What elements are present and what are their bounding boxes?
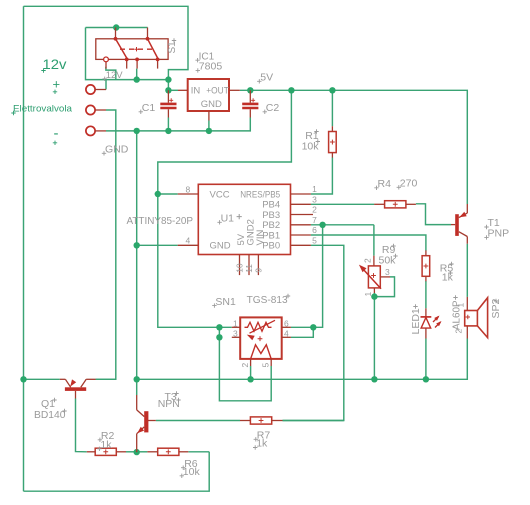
svg-text:GND: GND bbox=[105, 144, 129, 156]
pin numbers U1 bbox=[186, 184, 318, 273]
transistor T1 PNP bbox=[451, 204, 467, 244]
gas sensor SN1 TGS-813 bbox=[232, 317, 291, 366]
svg-text:7: 7 bbox=[312, 215, 317, 225]
svg-text:+OUT: +OUT bbox=[206, 85, 229, 96]
wire IC1 GND lead to GND bus bbox=[208, 121, 210, 131]
wire GND drop x=136.7 bbox=[136, 131, 138, 395]
node GND pin4 bbox=[134, 242, 140, 248]
node sensor pin3 bbox=[216, 334, 222, 340]
wire T3 emitter node to R2/R6 bbox=[126, 451, 137, 453]
node S1 top pin junction bbox=[113, 24, 119, 30]
svg-text:SN1: SN1 bbox=[215, 296, 236, 308]
node 5V C2 bbox=[247, 87, 253, 93]
node T3 emitter/R2/R6 bbox=[134, 449, 140, 455]
resistor R4 bbox=[374, 201, 416, 208]
svg-text:1k: 1k bbox=[256, 438, 268, 450]
resistor R6 bbox=[147, 448, 188, 455]
wire R6 left bbox=[137, 451, 148, 453]
wire S1 pin3 to bus bbox=[136, 69, 138, 80]
wire bus to IC1 IN node bbox=[167, 80, 169, 91]
svg-text:5: 5 bbox=[261, 363, 271, 368]
wire IN node to IC1 bbox=[168, 89, 178, 91]
node GND bus 1 bbox=[134, 128, 140, 134]
svg-text:10: 10 bbox=[235, 263, 245, 273]
resistor R5 bbox=[422, 250, 430, 281]
resistor R7 bbox=[240, 417, 283, 424]
wire VCC pin8 stub bbox=[158, 193, 178, 195]
svg-text:12v: 12v bbox=[43, 57, 67, 72]
wire pin6 row to R5 bbox=[311, 235, 426, 251]
wire C1 bottom to GND bus bbox=[167, 118, 169, 131]
node GND bus 7805 bbox=[206, 128, 212, 134]
node IN/C1 bbox=[165, 87, 171, 93]
wire ground net row y=379 bbox=[137, 339, 468, 380]
wire sensor pin6 node loop to pin4 bbox=[291, 327, 313, 337]
wire pin5 row to R7 bbox=[283, 245, 344, 420]
svg-text:U1: U1 bbox=[221, 213, 235, 225]
wire 5V drop to VCC and sensor bbox=[158, 90, 292, 327]
wire pad2 to Q1 collector net bbox=[96, 110, 116, 379]
svg-text:6: 6 bbox=[284, 318, 289, 328]
wire T1 collector to SP2 bbox=[466, 244, 468, 297]
svg-text:10k: 10k bbox=[302, 141, 320, 153]
voltage regulator IC1 7805 bbox=[178, 79, 240, 121]
svg-text:1: 1 bbox=[312, 184, 317, 194]
svg-text:2: 2 bbox=[363, 258, 373, 263]
wire +12V bottom run bbox=[24, 452, 210, 491]
wire R9 pin3 loop bbox=[374, 277, 394, 297]
svg-text:BD140: BD140 bbox=[34, 409, 66, 421]
svg-text:3: 3 bbox=[312, 195, 317, 205]
resistor R1 bbox=[329, 126, 337, 157]
svg-text:C1: C1 bbox=[142, 102, 156, 114]
wire Q1 base down bbox=[76, 399, 87, 452]
svg-text:11: 11 bbox=[244, 264, 254, 273]
pad Elettrovalvola P2 bbox=[86, 105, 106, 114]
wire GND bus bbox=[106, 118, 250, 131]
svg-text:R4: R4 bbox=[378, 178, 392, 190]
wire R4 to T1 base bbox=[416, 204, 451, 225]
wire pin7 row bbox=[311, 224, 374, 226]
pad 12V+ P1 bbox=[86, 85, 106, 94]
svg-text:1k: 1k bbox=[100, 439, 112, 451]
node PB2 branch bbox=[319, 222, 325, 228]
svg-text:2: 2 bbox=[240, 363, 250, 368]
node bus/IN drop bbox=[165, 76, 171, 82]
wire sensor electrode drop to heater pin5 bbox=[219, 327, 271, 401]
wire R1 top bbox=[331, 90, 333, 126]
node GND bus C1 bbox=[165, 128, 171, 134]
node VCC bbox=[155, 191, 161, 197]
svg-text:4: 4 bbox=[284, 329, 289, 339]
svg-text:4: 4 bbox=[186, 236, 191, 246]
svg-text:PNP: PNP bbox=[488, 228, 510, 240]
microcontroller U1 ATTINY85-20P bbox=[178, 184, 313, 275]
wire Q1 emitter from rail bbox=[24, 378, 60, 380]
svg-text:8: 8 bbox=[186, 184, 191, 194]
svg-text:1: 1 bbox=[363, 292, 373, 297]
svg-text:5V: 5V bbox=[260, 72, 273, 84]
svg-text:Elettrovalvola: Elettrovalvola bbox=[13, 104, 73, 115]
wire pad1 to bus bbox=[105, 80, 107, 90]
wire 5V bus bbox=[240, 90, 467, 204]
svg-text:VCC: VCC bbox=[210, 189, 230, 200]
wire T3 base to R7 bbox=[156, 420, 240, 422]
transistor T3 NPN bbox=[137, 395, 156, 452]
resistor R2 bbox=[87, 448, 126, 455]
svg-text:ATTINY85-20P: ATTINY85-20P bbox=[127, 215, 194, 227]
pin names U1 bbox=[210, 189, 281, 251]
wire switch box top edge bbox=[86, 27, 148, 29]
svg-text:3: 3 bbox=[385, 267, 390, 277]
pad GND P3 bbox=[86, 126, 106, 135]
svg-text:6: 6 bbox=[312, 225, 317, 235]
svg-text:270: 270 bbox=[400, 178, 418, 190]
svg-text:+: + bbox=[53, 77, 61, 92]
node bus/pin3 bbox=[134, 76, 140, 82]
svg-text:GND: GND bbox=[210, 241, 231, 252]
wire Q1 collector to pad2 net bbox=[96, 378, 116, 380]
svg-text:GND: GND bbox=[201, 99, 222, 110]
transistor Q1 BD140 bbox=[60, 379, 96, 398]
wire R1 bottom to pin1 bbox=[311, 158, 333, 195]
svg-text:LED1: LED1 bbox=[410, 308, 422, 334]
node sensor pin1 bbox=[216, 324, 222, 330]
node rail/Q1 bbox=[20, 376, 26, 382]
svg-text:10k: 10k bbox=[183, 466, 201, 478]
svg-text:7805: 7805 bbox=[199, 61, 223, 73]
svg-text:1: 1 bbox=[233, 318, 238, 328]
speaker SP2 AL60P bbox=[465, 297, 488, 339]
node sensor pin6/4 bbox=[310, 324, 316, 330]
node 5V R1 bbox=[329, 87, 335, 93]
svg-text:C2: C2 bbox=[266, 102, 280, 114]
svg-text:5: 5 bbox=[312, 236, 317, 246]
node gnd row/LED bbox=[423, 376, 429, 382]
wire R7 right to PB0 drop bbox=[283, 420, 344, 422]
wire +12V left rail bbox=[23, 6, 25, 491]
wire pin7 branch to R9 pin2 bbox=[373, 225, 375, 256]
wire R6 right to bottom run bbox=[188, 451, 209, 453]
wire R5 to LED1 bbox=[425, 281, 427, 308]
wire switch box left edge / 12V bus bbox=[86, 28, 169, 80]
potentiometer R9 bbox=[359, 256, 390, 293]
svg-text:-: - bbox=[54, 125, 59, 142]
wire S1 pin1 hook to bus bbox=[106, 67, 116, 80]
wire pin3 row to R4 bbox=[311, 203, 374, 205]
wire R9 wiper bottom drop bbox=[373, 293, 375, 379]
node gnd row/R9 bbox=[371, 376, 377, 382]
svg-text:9: 9 bbox=[254, 268, 264, 273]
svg-text:AL60P: AL60P bbox=[450, 301, 462, 331]
wire +12V top run to switch area bbox=[24, 6, 189, 79]
svg-text:12V: 12V bbox=[106, 70, 124, 81]
node R9 1-3 tie bbox=[371, 293, 377, 299]
svg-text:3: 3 bbox=[233, 329, 238, 339]
capacitor C2 bbox=[242, 90, 258, 117]
node gnd row/T3 bbox=[134, 376, 140, 382]
svg-text:VIN: VIN bbox=[255, 230, 266, 246]
svg-text:IN: IN bbox=[191, 85, 201, 96]
node gnd row/sensor2 bbox=[247, 376, 253, 382]
svg-text:S1: S1 bbox=[167, 41, 178, 54]
svg-text:2: 2 bbox=[312, 205, 317, 215]
svg-text:TGS-813: TGS-813 bbox=[247, 294, 288, 306]
LED LED1 bbox=[421, 308, 442, 338]
wire GND pin4 stub bbox=[137, 244, 178, 246]
node 5V drop bbox=[288, 87, 294, 93]
switch S1 bbox=[96, 28, 168, 69]
wire sensor pin2 down bbox=[250, 366, 252, 379]
wire LED1 cathode to ground net bbox=[425, 339, 427, 380]
wire pin7 drop to sensor pins 6/4 bbox=[291, 225, 323, 327]
capacitor C1 bbox=[160, 90, 176, 117]
